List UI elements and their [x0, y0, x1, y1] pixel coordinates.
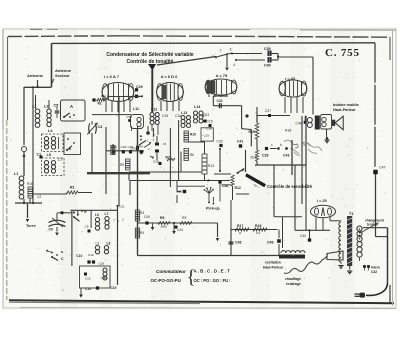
- svg-text:L5: L5: [47, 153, 51, 157]
- svg-text:C44: C44: [177, 228, 183, 232]
- svg-text:C30: C30: [127, 115, 133, 119]
- svg-text:C19: C19: [204, 134, 210, 138]
- svg-text:L11: L11: [133, 107, 139, 111]
- svg-text:L13: L13: [181, 111, 187, 115]
- svg-text:Condensateur de Sélectivité: Condensateur de Sélectivité variable: [106, 52, 193, 58]
- svg-text:Secteur: Secteur: [55, 73, 70, 78]
- svg-text:4: 4: [233, 63, 235, 67]
- svg-text:C36: C36: [235, 241, 241, 245]
- svg-text:C31: C31: [217, 99, 223, 103]
- svg-text:Commutateur: Commutateur: [156, 269, 186, 274]
- svg-text:C38: C38: [153, 160, 159, 164]
- svg-text:L9: L9: [96, 242, 100, 246]
- svg-text:R12: R12: [235, 186, 241, 190]
- svg-text:C43: C43: [283, 154, 289, 158]
- svg-text:15: 15: [163, 142, 167, 146]
- svg-text:C18: C18: [206, 126, 212, 130]
- svg-text:Haut-Parleur: Haut-Parleur: [333, 108, 356, 112]
- svg-text:C15: C15: [85, 277, 91, 281]
- svg-text:C19: C19: [111, 286, 117, 290]
- svg-text:C33: C33: [121, 145, 127, 149]
- svg-text:C15: C15: [162, 114, 168, 118]
- svg-text:OC-PO-GO-PU: OC-PO-GO-PU: [151, 278, 181, 283]
- svg-text:C48: C48: [267, 241, 273, 245]
- svg-text:C34: C34: [128, 145, 134, 149]
- svg-text:R9: R9: [139, 145, 143, 149]
- svg-text:C2: C2: [37, 195, 41, 199]
- svg-text:.5MΩ: .5MΩ: [160, 225, 167, 229]
- svg-text:R15: R15: [249, 130, 255, 134]
- svg-text:C6: C6: [85, 225, 89, 229]
- svg-text:Terre: Terre: [26, 223, 36, 228]
- svg-text:R6: R6: [190, 153, 194, 157]
- svg-text:C18: C18: [98, 262, 104, 266]
- svg-text:C39: C39: [264, 47, 271, 51]
- svg-text:L14: L14: [194, 105, 200, 109]
- svg-text:C7: C7: [58, 158, 62, 162]
- svg-text:L12: L12: [151, 108, 157, 112]
- svg-text:C30: C30: [217, 140, 223, 144]
- svg-text:C41: C41: [237, 140, 243, 144]
- svg-text:b: b: [280, 143, 282, 147]
- svg-text:éclairage: éclairage: [286, 282, 301, 286]
- svg-text:2: 2: [220, 49, 222, 53]
- svg-text:R10: R10: [190, 133, 196, 137]
- svg-text:C37: C37: [265, 109, 271, 113]
- svg-text:R18: R18: [285, 129, 291, 133]
- svg-text:Pick-up: Pick-up: [206, 207, 220, 211]
- svg-text:R13: R13: [208, 164, 214, 168]
- svg-text:MΩ: MΩ: [101, 94, 105, 98]
- svg-text:C42: C42: [371, 270, 377, 274]
- svg-text:i = 6 A 7: i = 6 A 7: [104, 74, 120, 79]
- svg-text:R2: R2: [98, 102, 102, 106]
- svg-text:OC ∶ PO ∶ GO ∶ FU ∶: OC ∶ PO ∶ GO ∶ FU ∶: [194, 278, 231, 283]
- svg-text:C28: C28: [262, 154, 268, 158]
- svg-text:C13: C13: [85, 287, 91, 291]
- svg-text:C5: C5: [54, 104, 59, 108]
- svg-text:C31: C31: [119, 205, 125, 209]
- svg-text:3: 3: [230, 48, 232, 52]
- svg-text:C45: C45: [144, 215, 150, 219]
- svg-text:chauffage: chauffage: [285, 277, 301, 281]
- svg-text:C40: C40: [300, 234, 306, 238]
- svg-text:R9: R9: [182, 216, 186, 220]
- svg-text:A . B . C . D . E . T: A . B . C . D . E . T: [194, 269, 231, 274]
- svg-text:C12: C12: [88, 253, 94, 257]
- svg-text:L9: L9: [95, 213, 99, 217]
- svg-text:R5: R5: [160, 216, 164, 220]
- svg-text:tension: tension: [367, 223, 378, 227]
- svg-text:C17: C17: [201, 114, 207, 118]
- svg-text:i = 25: i = 25: [317, 199, 327, 203]
- svg-text:L8: L8: [107, 242, 111, 246]
- svg-text:1: 1: [212, 55, 214, 59]
- svg-text:C10: C10: [76, 254, 82, 258]
- svg-text:à = 75: à = 75: [216, 73, 228, 78]
- svg-text:R4: R4: [140, 231, 144, 235]
- svg-text:C47: C47: [379, 166, 386, 170]
- svg-text:A: A: [70, 104, 73, 109]
- svg-text:R1: R1: [70, 186, 75, 190]
- svg-text:C16: C16: [175, 114, 181, 118]
- svg-text:C. 755: C. 755: [325, 47, 360, 59]
- svg-text:Antenne: Antenne: [27, 73, 44, 78]
- svg-text:bobine mobile: bobine mobile: [333, 103, 359, 107]
- svg-text:Inters: Inters: [371, 266, 380, 270]
- svg-text:R16: R16: [27, 182, 33, 186]
- svg-text:C40: C40: [264, 64, 271, 68]
- svg-text:L7: L7: [105, 212, 109, 216]
- svg-text:Haut-Parleur: Haut-Parleur: [263, 266, 284, 270]
- svg-text:à = 6 D 6: à = 6 D 6: [161, 74, 178, 79]
- svg-text:R9: R9: [120, 163, 124, 167]
- svg-text:C15: C15: [207, 120, 213, 124]
- svg-text:T1: T1: [349, 212, 353, 216]
- svg-text:Ta: Ta: [254, 184, 258, 188]
- svg-text:excitation: excitation: [265, 261, 281, 265]
- svg-text:L3: L3: [44, 105, 48, 109]
- svg-text:C46: C46: [296, 122, 302, 126]
